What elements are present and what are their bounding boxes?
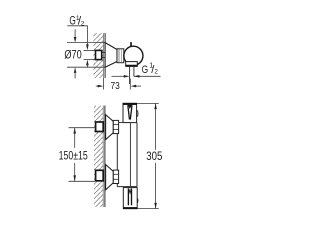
svg-text:2: 2 [81,21,85,28]
top handle grip groove [128,105,132,109]
extension line y=50.4 (square top) [84,49,96,51]
wall face line inner [102,106,104,208]
body outline [116,123,118,187]
up arrow of dia70 (outside, below) [74,67,77,73]
down arrow of dia70 (outside, above) [74,29,76,38]
extension line y=42.6 (escutcheon top) [67,42,105,44]
outlet block under circle [126,62,138,67]
bottom handle bulge arc [137,198,138,203]
leader drop with down arrow (points at square top ext) [86,26,88,46]
bottom handle [123,188,137,209]
lower escutcheon cone [106,165,114,190]
svg-text:2: 2 [154,69,158,76]
wall face line outer [104,33,106,78]
wall face line outer [104,106,106,208]
lower in-wall square [96,170,104,181]
wall face line inner [103,33,105,78]
upper union nut [113,120,118,133]
stem on valve top [130,42,132,47]
svg-text:Ø70: Ø70 [64,48,82,62]
leader arrow to pipe (right side) [134,75,161,77]
wall face extension down [103,78,105,90]
union nut (top view) [117,49,124,63]
label G 1/2 (top left) [69,14,84,27]
in-wall union square (top view) [96,50,102,59]
dim 305: extension lines [137,103,159,105]
upper escutcheon cone [106,115,114,140]
svg-text:73: 73 [111,81,120,92]
dim 73: right extension line [129,79,131,90]
bottom handle grip groove [127,188,129,205]
dim 150 line + arrows [74,128,76,148]
up arrow small dim (below) [86,60,89,66]
extension line y=67.2 (escutcheon bottom) [67,66,105,68]
dim 73 right arrow (points left at pipe) [131,85,137,88]
dim 150+-15: extension lines [69,127,96,129]
label G 1/2 (outlet) [142,63,159,76]
escutcheon cone (top view) [105,43,117,68]
top handle [123,103,137,122]
wall hatching (top view) [93,33,103,78]
wall hatching (front view) [94,106,103,208]
leader arrow to pipe (left side) [112,75,126,77]
valve body circle [124,46,143,65]
svg-text:305: 305 [146,149,162,163]
svg-text:G: G [142,64,149,76]
dim 73 left arrow (points right at wall) [96,85,100,87]
lower union nut [113,170,118,183]
extension line y=59.4 (square bottom) [84,58,96,60]
outlet pipe right line [133,66,135,76]
leader shelf under G 1/2 [67,25,88,27]
upper in-wall square [96,122,104,132]
top handle bulge arc [137,110,138,116]
outlet pipe left line [129,66,131,84]
svg-text:150±15: 150±15 [59,149,88,163]
dim 305 line + arrows [155,104,157,150]
stub lines square to wall [102,52,105,54]
